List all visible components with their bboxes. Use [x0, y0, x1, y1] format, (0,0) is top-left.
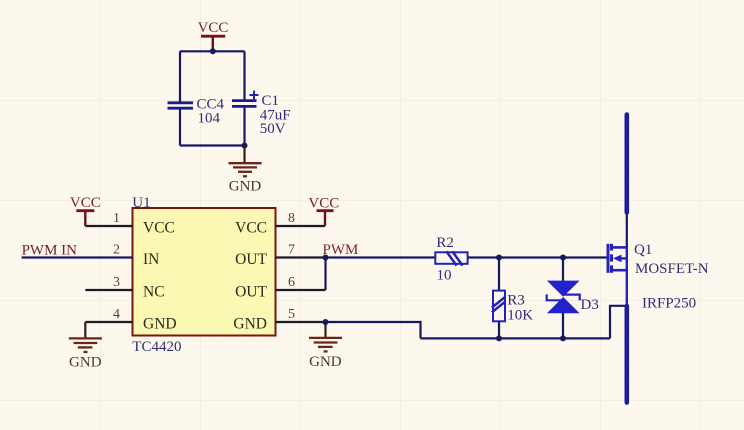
svg-text:GND: GND: [233, 316, 267, 333]
svg-text:GND: GND: [69, 354, 102, 370]
svg-text:OUT: OUT: [235, 251, 267, 268]
wire: drain thin segment: [626, 213, 628, 248]
wire: down to R3: [498, 258, 500, 291]
power port VCC (pin 1): [70, 195, 101, 226]
svg-text:IRFP250: IRFP250: [642, 296, 696, 312]
svg-text:NC: NC: [143, 284, 165, 301]
pin 6 (OUT): [235, 275, 325, 301]
wire: left branch above CC4: [179, 51, 181, 101]
svg-text:5: 5: [288, 307, 295, 322]
wire: pin5 to bottom rail (down at x=420.5): [326, 322, 421, 338]
junction: D3 bottom node: [560, 335, 566, 341]
svg-text:Q1: Q1: [634, 242, 652, 258]
svg-text:104: 104: [198, 111, 221, 127]
svg-text:VCC: VCC: [235, 220, 267, 237]
wire: drain rail (thick): [624, 115, 629, 213]
svg-text:2: 2: [113, 243, 120, 258]
resistor R3 10K: [492, 291, 533, 324]
pin 2 (IN): [22, 243, 160, 269]
wire: left branch below CC4: [179, 109, 181, 145]
svg-text:6: 6: [288, 275, 295, 290]
svg-text:VCC: VCC: [198, 20, 229, 36]
junction: PWM node: [323, 255, 329, 261]
svg-text:D3: D3: [581, 297, 599, 313]
junction: VCC to cap rail: [210, 48, 216, 54]
pin 8 (VCC): [235, 211, 325, 237]
svg-text:50V: 50V: [260, 121, 286, 137]
svg-text:MOSFET-N: MOSFET-N: [635, 261, 709, 277]
svg-text:GND: GND: [309, 354, 342, 370]
power port VCC (top, above C1/CC4): [198, 20, 229, 51]
wire: R3 to bottom rail: [498, 321, 500, 338]
resistor R2 10: [435, 235, 467, 284]
wire: D3 to bottom rail: [562, 313, 564, 338]
wire: bottom rail up to source node: [610, 306, 627, 339]
svg-text:PWM IN: PWM IN: [22, 243, 78, 259]
transistor Q1 MOSFET-N: [608, 242, 709, 312]
svg-text:IN: IN: [143, 251, 159, 268]
junction: R3 top node: [496, 255, 502, 261]
svg-text:VCC: VCC: [143, 220, 175, 237]
pin 3 (NC): [85, 275, 164, 301]
svg-text:10: 10: [437, 268, 452, 284]
svg-text:PWM: PWM: [323, 242, 359, 258]
svg-text:VCC: VCC: [308, 196, 339, 212]
svg-text:OUT: OUT: [235, 284, 267, 301]
wire: source rail (thick): [624, 306, 629, 403]
junction: bottom rail to GND: [242, 143, 248, 149]
svg-text:R2: R2: [436, 235, 454, 251]
wire: pin7 junction to pin6 (vertical): [324, 258, 326, 291]
power port VCC (pin 8): [308, 196, 339, 227]
pin 4 (GND): [85, 307, 176, 333]
capacitor CC4 104: [168, 96, 225, 126]
svg-text:R3: R3: [507, 292, 525, 308]
ground GND (below capacitor loop): [229, 146, 262, 195]
wire: PWM node to R2: [326, 256, 436, 258]
wire: bottom rail: [421, 337, 611, 339]
pin 7 (OUT): [235, 243, 325, 269]
svg-text:1: 1: [113, 211, 120, 226]
pin 1 (VCC): [85, 211, 175, 237]
wire: bottom rail of capacitor loop: [180, 144, 245, 146]
wire: right branch above C1: [243, 51, 245, 99]
ground GND (pin 5 net): [309, 322, 342, 370]
junction: D3 top node: [560, 255, 566, 261]
wire: top rail of capacitor loop: [180, 50, 245, 52]
svg-text:TC4420: TC4420: [132, 339, 181, 355]
ground GND (pin 4): [69, 322, 102, 370]
svg-text:8: 8: [288, 211, 295, 226]
TVS diode D3 (bidirectional): [547, 281, 599, 314]
svg-text:10K: 10K: [507, 307, 533, 323]
capacitor C1 47uF 50V (polarized): [232, 91, 291, 137]
wire: down to D3: [562, 258, 564, 282]
svg-text:GND: GND: [229, 179, 262, 195]
svg-text:3: 3: [113, 275, 120, 290]
junction: pin5/GND node: [323, 319, 329, 325]
pin 5 (GND): [233, 307, 325, 333]
svg-text:7: 7: [288, 243, 295, 258]
wire: right branch below C1: [243, 107, 245, 145]
svg-text:U1: U1: [132, 195, 150, 211]
junction: R3 bottom node: [496, 335, 502, 341]
svg-text:VCC: VCC: [70, 195, 101, 211]
wire: R2 to MOSFET gate: [468, 256, 607, 258]
svg-text:4: 4: [113, 307, 120, 322]
svg-text:GND: GND: [143, 316, 177, 333]
IC U1 TC4420 body: [132, 195, 275, 355]
